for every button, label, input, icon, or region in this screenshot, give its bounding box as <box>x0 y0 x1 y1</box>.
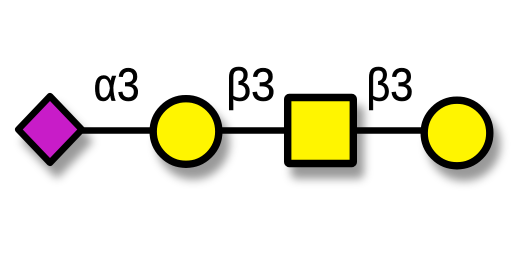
svg-text:β3: β3 <box>366 59 413 111</box>
svg-text:α3: α3 <box>94 59 140 111</box>
svg-text:β3: β3 <box>226 58 275 110</box>
